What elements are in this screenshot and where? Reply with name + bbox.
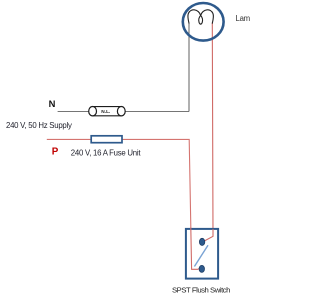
wire: phase line from P through fuse, down to switch: [47, 139, 201, 269]
fuse F1: 16 A fuse unit box: [91, 136, 122, 143]
lamp L1: filament loop left: [188, 10, 203, 24]
wire: neutral line from N to lamp lead: [58, 111, 189, 113]
switch S1: red jog inside box to bottom terminal: [191, 228, 201, 270]
switch S1: red jog inside box to top terminal: [204, 229, 213, 241]
switch S1: top terminal: [199, 238, 204, 245]
switch S1: SPST flush switch box: [186, 229, 218, 279]
svg-text:240 V, 16 A Fuse Unit: 240 V, 16 A Fuse Unit: [71, 149, 142, 158]
switch S1: bottom terminal: [199, 265, 204, 272]
wire: red lamp lead down to switch top terminal: [204, 23, 213, 241]
switch S1: lever arm: [194, 245, 208, 266]
svg-text:N: N: [49, 98, 56, 109]
lamp L1: filament loop right: [199, 10, 214, 24]
svg-text:P: P: [52, 147, 59, 158]
fuse F2: neutral link body: [89, 107, 126, 116]
lamp L1: bulb outline: [183, 3, 224, 41]
svg-text:240 V, 50 Hz Supply: 240 V, 50 Hz Supply: [6, 121, 72, 130]
svg-text:N.L.: N.L.: [101, 109, 110, 115]
svg-text:Lamp: Lamp: [236, 14, 251, 23]
svg-text:SPST Flush Switch: SPST Flush Switch: [172, 286, 230, 295]
wire: black lamp lead (lamp to neutral line): [188, 23, 190, 112]
